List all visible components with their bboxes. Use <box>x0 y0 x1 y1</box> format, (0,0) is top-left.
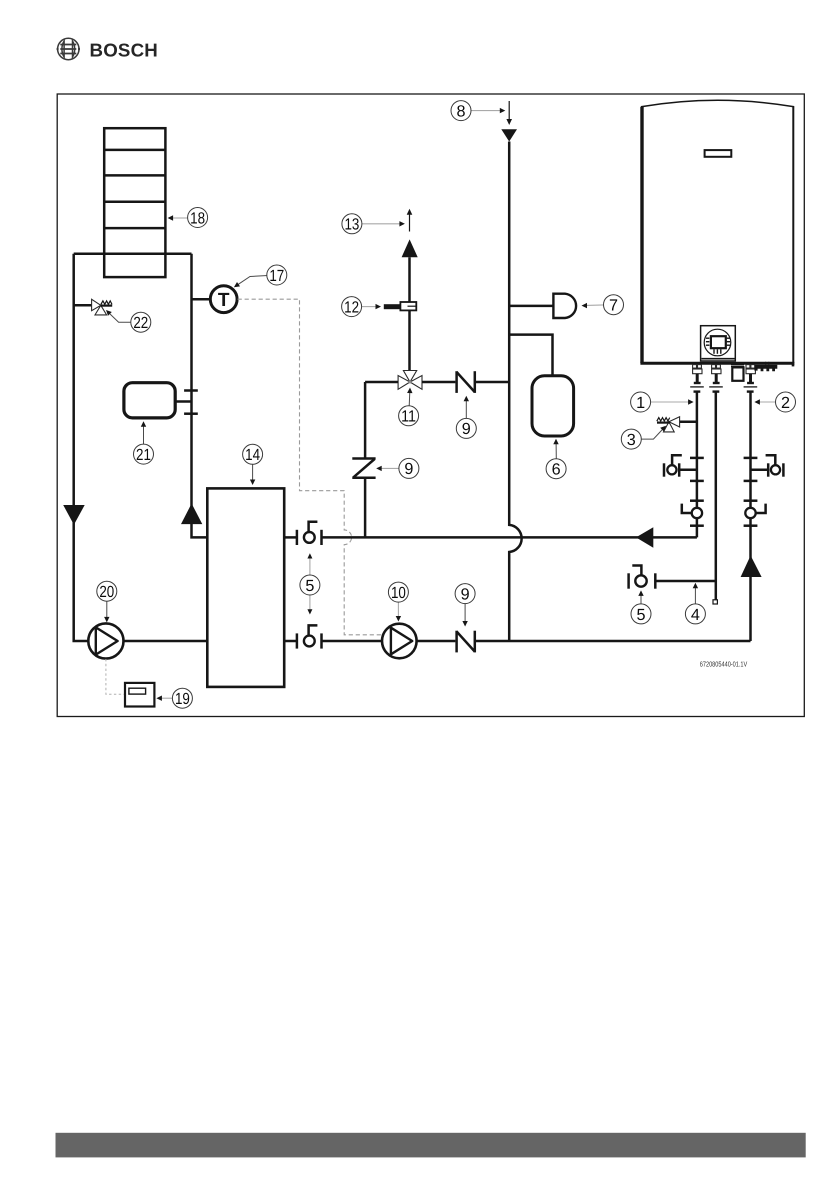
wire pump 10 to check valve <box>417 640 456 643</box>
label 19 <box>156 688 192 708</box>
label 9 bypass <box>376 458 419 478</box>
expansion tank 21 <box>124 383 198 418</box>
wire branch to siphon 7 <box>509 305 553 308</box>
flow arrow up on right pipe <box>181 504 202 525</box>
label 2 <box>754 392 795 412</box>
flow arrow down on left pipe <box>63 505 84 525</box>
boiler control panel <box>701 326 736 361</box>
svg-text:10: 10 <box>391 584 406 602</box>
svg-text:1: 1 <box>636 394 645 412</box>
flow arrow down into main pipe <box>501 129 517 141</box>
boiler connection fitting pipe 1 <box>690 365 704 392</box>
buffer tank 14 <box>207 488 284 687</box>
svg-text:9: 9 <box>461 585 470 603</box>
flow arrow left on supply line <box>636 527 653 548</box>
label 6 <box>546 439 566 479</box>
label 9 lower <box>455 584 475 627</box>
label 13 <box>342 214 405 234</box>
svg-text:12: 12 <box>344 298 359 316</box>
boiler display slot <box>705 150 732 157</box>
footer bar <box>56 1133 806 1158</box>
label 21 <box>134 421 154 464</box>
shutoff valve 5 lower <box>297 625 322 648</box>
label 1 <box>631 392 694 412</box>
boiler right pipe wire <box>192 254 208 538</box>
wall hung boiler appliance <box>640 100 794 363</box>
wire mixer to left down pipe <box>365 381 398 384</box>
label 18 <box>168 208 208 228</box>
thermal discharge valve 22 <box>92 299 113 315</box>
wire stub safety valve 3 <box>680 421 697 424</box>
boiler left pipe wire <box>74 254 89 641</box>
svg-text:8: 8 <box>456 103 465 121</box>
vent arrow line 8 <box>506 101 512 125</box>
dashed cable pump 20 to controller 19 <box>106 659 125 694</box>
temperature sensor T 17 <box>210 286 237 313</box>
svg-text:19: 19 <box>175 690 190 708</box>
radiator 18 <box>104 128 165 277</box>
condensate middle pipe wire <box>715 392 718 600</box>
vent arrow line 13 <box>407 209 413 232</box>
Bosch logo symbol <box>57 38 80 59</box>
expansion vessel 6 <box>532 376 574 436</box>
svg-text:20: 20 <box>99 583 114 601</box>
bottom return wire to boiler <box>475 640 751 643</box>
mixer bypass pipe wire <box>364 382 367 537</box>
wire stub to temperature sensor <box>192 298 212 301</box>
boiler connection fitting pipe 2 <box>744 365 758 392</box>
svg-text:13: 13 <box>344 216 359 234</box>
wire pump 20 to buffer tank <box>124 640 208 643</box>
label 11 <box>399 388 419 426</box>
svg-text:2: 2 <box>781 394 790 412</box>
label 7 <box>582 295 624 315</box>
boiler accessory manifold sketch <box>754 362 794 371</box>
svg-text:T: T <box>218 290 230 311</box>
wire check valve to main pipe <box>475 381 509 384</box>
three-way mixing valve 11 <box>398 371 422 390</box>
boiler connection fitting middle <box>709 365 723 392</box>
svg-text:3: 3 <box>627 431 636 449</box>
label 10 <box>388 582 408 621</box>
label 12 <box>342 297 381 317</box>
svg-text:4: 4 <box>691 606 700 624</box>
boiler gas connection <box>731 365 744 381</box>
label 3 <box>621 426 666 449</box>
label 14 <box>243 444 263 485</box>
siphon 7 <box>553 294 576 318</box>
svg-text:5: 5 <box>636 606 645 624</box>
heating flow pipe wire above mixer <box>408 257 411 370</box>
label 9 upper <box>456 396 476 439</box>
svg-text:9: 9 <box>404 460 413 478</box>
pump 10 <box>382 624 417 659</box>
label 5 bottom <box>631 590 651 624</box>
svg-text:21: 21 <box>136 446 151 464</box>
check valve 9 on bypass <box>352 459 375 478</box>
wire branch to expansion vessel 6 <box>509 335 552 376</box>
control cable dashed from sensor 17 to pump 10 <box>238 299 382 635</box>
service valve with fill drain on pipe 1 <box>664 455 704 481</box>
controller 19 <box>125 683 154 707</box>
check valve 9 right of mixer <box>457 371 475 393</box>
svg-text:6: 6 <box>552 461 561 479</box>
svg-text:6720805440-01.1V: 6720805440-01.1V <box>700 660 748 669</box>
label 8 <box>451 101 505 121</box>
label 4 <box>685 583 705 624</box>
svg-text:22: 22 <box>133 314 148 332</box>
wire mixer to check valve <box>422 381 455 384</box>
label 22 <box>106 310 151 332</box>
svg-text:11: 11 <box>401 408 416 426</box>
svg-text:18: 18 <box>190 209 205 227</box>
main vertical pipe with hop over supply line <box>509 142 521 642</box>
svg-text:14: 14 <box>245 446 260 464</box>
svg-text:7: 7 <box>609 297 618 315</box>
heating flow pipe 1 wire <box>696 392 699 538</box>
temperature gauge 12 <box>384 302 417 310</box>
lower return wire from tank <box>284 640 297 643</box>
pump 20 <box>88 623 123 658</box>
solid fuel boiler top wire <box>74 253 192 256</box>
flow arrow up air vent <box>402 239 418 257</box>
condensate pipe end marker <box>713 600 717 604</box>
service valve with fill drain on pipe 2 <box>744 455 784 481</box>
svg-text:BOSCH: BOSCH <box>90 40 159 61</box>
diagram frame <box>57 94 804 717</box>
label 20 <box>97 581 117 622</box>
label 17 <box>234 265 287 287</box>
check valve 9 lower <box>457 631 475 653</box>
circulation valve 5 bottom <box>629 566 716 589</box>
shutoff valve 5 upper <box>297 522 322 545</box>
svg-text:5: 5 <box>305 577 314 595</box>
flow arrow up on pipe 2 <box>741 556 762 578</box>
svg-text:9: 9 <box>462 420 471 438</box>
safety valve 3 <box>657 417 680 432</box>
heating return pipe 2 wire <box>749 392 752 641</box>
wire stub to thermal valve 22 <box>74 304 93 307</box>
svg-text:17: 17 <box>269 267 284 285</box>
shutoff valve on pipe 1 <box>682 501 704 526</box>
label 5 middle with double arrow <box>300 553 320 614</box>
upper supply wire from tank to system <box>284 536 297 539</box>
shutoff valve on pipe 2 <box>744 501 766 526</box>
